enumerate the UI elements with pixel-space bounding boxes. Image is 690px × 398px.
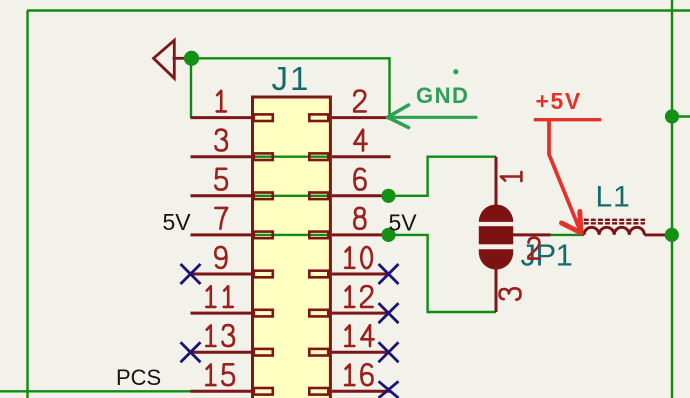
wire 5V from pin8 to JP1 pin3 <box>389 235 497 312</box>
wire stub to right edge <box>672 115 690 117</box>
wire through body row 3-4 <box>254 155 329 157</box>
wire GND drop to pin1 <box>190 58 192 117</box>
svg-text:L1: L1 <box>596 181 631 214</box>
pin notches <box>254 114 328 394</box>
pin numbers odd <box>206 91 234 385</box>
+5V bar <box>534 118 602 121</box>
JP1 pin 1 line <box>495 157 498 205</box>
svg-text:GND: GND <box>416 83 469 108</box>
no-connect X pin12 <box>379 303 399 323</box>
node junction right-top <box>665 109 679 123</box>
svg-text:J1: J1 <box>272 60 311 97</box>
wire through body row 5-6 <box>254 195 329 197</box>
no-connect X pin13 <box>181 342 201 362</box>
node junction at L1 right <box>665 228 679 242</box>
JP1 pin 3 line <box>495 267 498 313</box>
no-connect X pin16 <box>379 381 399 398</box>
JP1 pin number 1 <box>501 172 522 181</box>
stray dot above GND <box>453 69 458 74</box>
L1 lead to junction <box>644 233 665 236</box>
inductor L1 core dashes <box>584 220 645 224</box>
no-connect X pin9 <box>181 264 201 284</box>
pin lines left <box>191 118 252 392</box>
pin numbers even <box>345 91 373 386</box>
annotation arrow GND <box>388 105 477 128</box>
wire top border <box>27 9 690 11</box>
wire bottom (PCS net to pin 15) <box>0 390 192 392</box>
wire left border <box>26 11 28 398</box>
pin lines right <box>332 118 391 392</box>
no-connect X pin10 <box>379 264 399 284</box>
annotation arrow +5V <box>549 121 581 233</box>
wire GND top run <box>191 58 390 117</box>
wire right vertical <box>671 0 673 398</box>
node junction pin6 <box>381 189 395 203</box>
JP1 pin number 3 <box>500 288 521 299</box>
no-connect X pin14 <box>379 342 399 362</box>
svg-text:PCS: PCS <box>116 365 161 390</box>
svg-text:5V: 5V <box>163 209 192 235</box>
JP1 pin number 2 <box>528 238 539 259</box>
jumper JP1 body <box>479 204 513 269</box>
unconnected arrow symbol <box>154 40 186 78</box>
wire 5V from pin6 to JP1 pin1 <box>389 157 497 196</box>
svg-text:+5V: +5V <box>536 88 582 114</box>
JP1 pin 2 line <box>513 233 551 236</box>
wire JP1 pin2 to L1 <box>551 234 585 236</box>
node junction at arrow <box>184 51 199 66</box>
node junction pin8 <box>381 228 395 242</box>
connector J1 body <box>253 97 331 398</box>
inductor L1 coil <box>584 227 644 235</box>
svg-text:5V: 5V <box>389 210 418 236</box>
wire through body row 7-8 <box>254 234 329 236</box>
